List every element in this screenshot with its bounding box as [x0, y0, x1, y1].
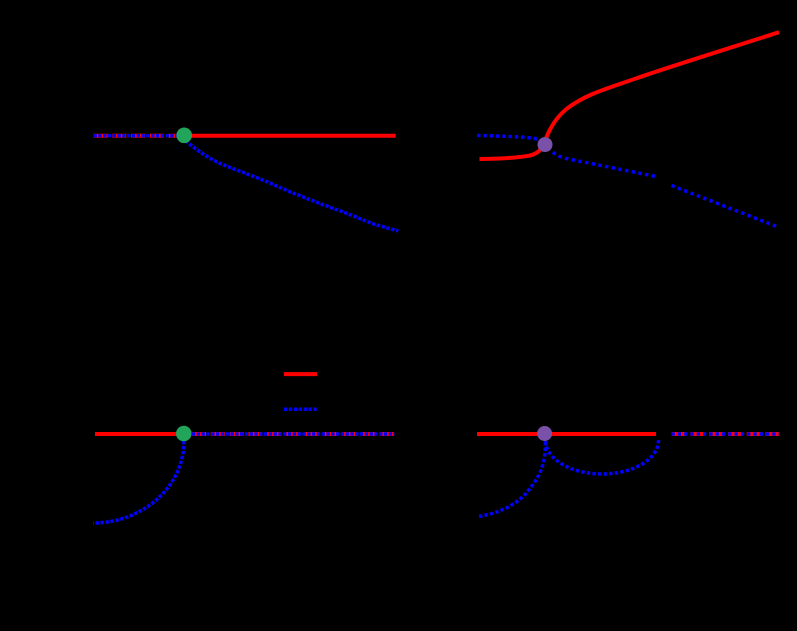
bottom-left: unstable curved branch blue dotted (quarter ellipse): [93, 441, 184, 523]
bottom-left: unstable overlapped red dashed: [192, 432, 394, 436]
bottom-left: bifurcation point green dot: [176, 426, 192, 442]
legend: red solid sample line: [284, 372, 317, 376]
legend: blue dotted sample line: [284, 407, 317, 411]
top-right: red solid stable curve: [480, 32, 780, 159]
bottom-right: bifurcation point purple dot: [537, 426, 552, 441]
top-left: unstable descending branch blue dotted: [186, 141, 399, 232]
top-left: unstable branch red dashed (overlapped): [94, 134, 179, 138]
top-right: lower-right blue dotted branch segment 2: [672, 186, 779, 228]
bottom-right: unstable overlapped blue dotted: [672, 432, 780, 435]
top-left: stable branch red solid: [184, 134, 396, 138]
top-left: unstable branch blue dotted (overlapped): [94, 134, 179, 137]
top-right: bifurcation point purple dot: [538, 137, 553, 152]
bottom-right: unstable overlapped red dashed: [672, 432, 780, 436]
bottom-right: bowl unstable branch blue dotted (half ellipse): [546, 440, 659, 474]
top-right: upper-left blue dotted branch: [477, 135, 546, 144]
top-left: bifurcation point green dot: [176, 128, 192, 144]
bottom-right: left unstable branch blue dotted (quarter ellipse): [479, 442, 545, 516]
bottom-left: stable branch red solid: [95, 432, 184, 436]
bottom-left: unstable overlapped blue dotted: [192, 432, 394, 435]
top-right: lower-right blue dotted branch segment 1: [548, 148, 656, 177]
bottom-right: stable branch red solid: [477, 432, 656, 436]
